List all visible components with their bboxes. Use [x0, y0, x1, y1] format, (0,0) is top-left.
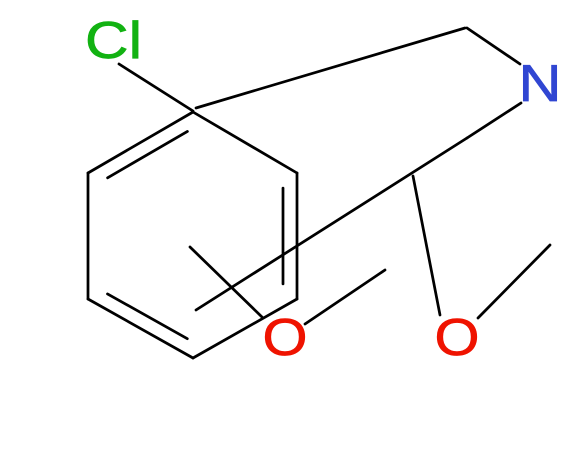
ring edge C1-C6	[88, 112, 193, 173]
ring edge C4-C3	[193, 299, 297, 358]
bond C9-O2 steep	[413, 176, 440, 315]
bond C7 long diagonal	[196, 138, 467, 310]
aromatic inner C3-C2	[282, 188, 285, 284]
aromatic inner C5-C4	[108, 294, 188, 339]
ring edge C3-C2	[296, 173, 299, 299]
ring edge C5-C4	[88, 299, 193, 358]
aromatic inner C1-C6	[108, 131, 188, 177]
bond apex-N	[467, 28, 520, 64]
bond O2-CH3	[478, 245, 550, 318]
svg-text:Cl: Cl	[85, 12, 142, 70]
bond to O1 upperleft	[190, 247, 263, 318]
svg-text:N: N	[519, 55, 562, 113]
svg-text:O: O	[263, 309, 308, 367]
bond chain up	[196, 28, 465, 108]
ring edge C6-C5	[87, 173, 90, 299]
svg-text:O: O	[435, 309, 480, 367]
ring edge C2-C1	[193, 112, 297, 173]
bond N-C7	[467, 103, 521, 138]
bond O1-C8	[305, 270, 385, 324]
bond Cl-C1	[119, 64, 193, 111]
